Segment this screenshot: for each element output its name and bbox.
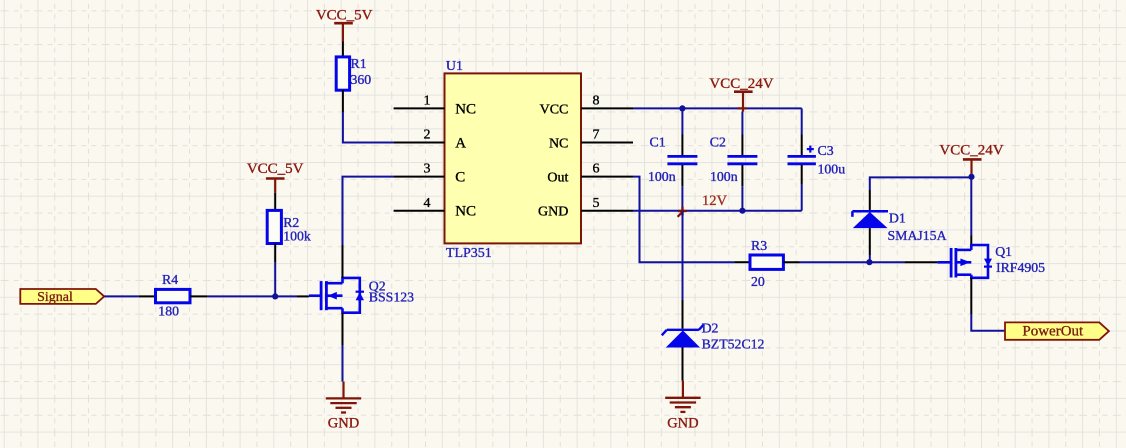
wire 12V rail pin5 to C3 bottom bbox=[633, 184, 802, 211]
svg-text:C2: C2 bbox=[710, 135, 726, 150]
svg-text:20: 20 bbox=[751, 274, 765, 289]
power symbol VCC_5V (above R1) bbox=[316, 7, 373, 41]
svg-text:A: A bbox=[455, 135, 466, 151]
svg-text:C1: C1 bbox=[650, 135, 666, 150]
resistor R1 360 bbox=[336, 42, 371, 113]
capacitor C3 100u polarized bbox=[788, 135, 846, 185]
node junction C2 bottom bbox=[739, 208, 745, 214]
svg-text:C: C bbox=[455, 170, 465, 186]
svg-text:Signal: Signal bbox=[37, 290, 73, 305]
wire gate pin segment bbox=[297, 295, 309, 297]
svg-text:7: 7 bbox=[593, 128, 600, 143]
wire D1 bottom to gate net bbox=[869, 228, 871, 262]
resistor R3 20 bbox=[734, 238, 799, 289]
svg-text:IRF4905: IRF4905 bbox=[996, 260, 1045, 275]
svg-text:6: 6 bbox=[593, 162, 600, 177]
wire Signal port to R4 bbox=[104, 295, 139, 297]
diode D1 SMAJ15A bbox=[852, 211, 946, 244]
svg-text:VCC_5V: VCC_5V bbox=[247, 161, 304, 177]
resistor R2 100k bbox=[267, 193, 311, 263]
wire U1 pin3 to Q2 drain bbox=[343, 177, 394, 278]
svg-text:R1: R1 bbox=[351, 56, 367, 71]
svg-text:2: 2 bbox=[424, 128, 431, 143]
node junction C1 bottom with marker bbox=[678, 207, 687, 217]
svg-text:GND: GND bbox=[667, 416, 698, 432]
svg-text:NC: NC bbox=[455, 101, 476, 117]
svg-text:U1: U1 bbox=[446, 59, 463, 74]
svg-text:100u: 100u bbox=[818, 162, 846, 177]
svg-text:R3: R3 bbox=[751, 238, 767, 253]
wire D2 to GND bbox=[682, 347, 684, 380]
wire VCC_24V rail to D1 and Q1 drain bbox=[870, 177, 972, 210]
svg-text:GND: GND bbox=[328, 416, 359, 432]
svg-text:VCC_5V: VCC_5V bbox=[316, 7, 373, 23]
pin 4 NC bbox=[394, 196, 476, 220]
svg-text:100n: 100n bbox=[648, 169, 676, 184]
svg-text:8: 8 bbox=[593, 94, 600, 109]
svg-text:100k: 100k bbox=[283, 229, 311, 244]
pin 7 NC bbox=[549, 128, 633, 152]
svg-text:VCC_24V: VCC_24V bbox=[709, 76, 773, 92]
transistor Q1 IRF4905 P-MOSFET bbox=[937, 244, 1045, 278]
svg-text:D2: D2 bbox=[702, 321, 719, 336]
svg-text:360: 360 bbox=[351, 72, 372, 87]
ground GND (under Q2) bbox=[326, 382, 361, 432]
svg-text:NC: NC bbox=[549, 136, 568, 151]
wire Q1 source to PowerOut bbox=[971, 278, 1004, 331]
svg-text:C3: C3 bbox=[818, 143, 834, 158]
svg-text:5: 5 bbox=[593, 196, 600, 211]
pin 6 Out bbox=[547, 162, 633, 186]
svg-text:VCC_24V: VCC_24V bbox=[939, 143, 1003, 159]
wire R1 bottom to U1 pin 2 bbox=[343, 112, 394, 143]
ground GND (under D2) bbox=[665, 381, 700, 432]
port PowerOut bbox=[1005, 322, 1109, 339]
capacitor C2 100n bbox=[710, 135, 758, 187]
svg-text:Out: Out bbox=[547, 171, 568, 186]
wire VCC rail pin8 to C3 bbox=[633, 108, 802, 134]
svg-text:100n: 100n bbox=[710, 169, 738, 184]
svg-text:SMAJ15A: SMAJ15A bbox=[888, 228, 947, 243]
svg-text:BSS123: BSS123 bbox=[369, 289, 414, 304]
node junction R2/R4/Q2 bbox=[272, 293, 278, 299]
node junction VCC_24V / Q1 drain bbox=[968, 174, 974, 180]
op-amp U1 TLP351 optocoupler body bbox=[445, 59, 582, 261]
power symbol VCC_24V (top) bbox=[709, 76, 773, 111]
svg-text:R4: R4 bbox=[162, 272, 178, 287]
diode D2 BZT52C12 zener bbox=[662, 321, 765, 352]
svg-text:TLP351: TLP351 bbox=[446, 246, 492, 261]
svg-text:D1: D1 bbox=[889, 211, 906, 226]
wire 12V node down to D2 bbox=[682, 211, 684, 329]
svg-text:12V: 12V bbox=[702, 193, 728, 209]
wire R4 to Q2 gate bbox=[208, 295, 297, 297]
resistor R4 180 bbox=[139, 272, 208, 318]
svg-text:180: 180 bbox=[158, 303, 179, 318]
wire U1 pin6 Out down and right to R3 bbox=[633, 177, 734, 263]
node junction C1 top bbox=[679, 105, 685, 111]
svg-text:NC: NC bbox=[455, 204, 476, 220]
svg-text:Q1: Q1 bbox=[995, 244, 1012, 259]
pin 1 NC bbox=[394, 94, 476, 118]
svg-text:PowerOut: PowerOut bbox=[1022, 323, 1084, 339]
power symbol VCC_24V (right) bbox=[939, 143, 1003, 175]
pin 8 VCC bbox=[540, 94, 633, 118]
pin 3 C bbox=[394, 162, 466, 186]
wire R3 to Q1 gate bbox=[800, 261, 938, 263]
svg-text:1: 1 bbox=[424, 94, 431, 109]
capacitor C1 100n bbox=[648, 135, 697, 187]
node junction D1 bottom bbox=[866, 259, 872, 265]
svg-text:3: 3 bbox=[424, 162, 431, 177]
port Signal bbox=[20, 289, 104, 305]
wire VCC node to Q1 drain bbox=[970, 177, 972, 245]
svg-text:VCC: VCC bbox=[540, 102, 569, 117]
transistor Q2 BSS123 N-MOSFET bbox=[309, 278, 414, 313]
pin 2 A bbox=[394, 128, 467, 152]
svg-text:BZT52C12: BZT52C12 bbox=[702, 337, 765, 352]
power symbol VCC_5V (above R2) bbox=[247, 161, 304, 193]
svg-text:GND: GND bbox=[538, 205, 568, 220]
svg-text:4: 4 bbox=[424, 196, 431, 211]
pin 5 GND bbox=[538, 196, 633, 220]
wire R2 bottom to signal node bbox=[274, 263, 276, 297]
wire Q2 source to GND bbox=[342, 313, 344, 382]
